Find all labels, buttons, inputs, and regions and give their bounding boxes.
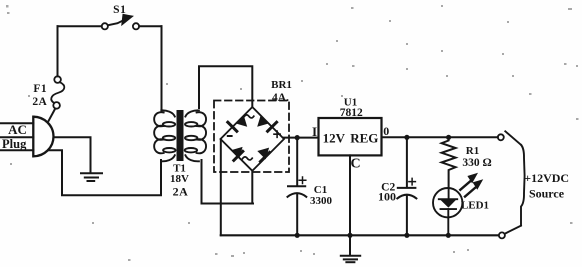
AC plug body <box>33 117 53 157</box>
symbol - left <box>227 135 233 137</box>
plug prong middle <box>0 136 33 138</box>
junction U1 ground rail <box>347 233 352 238</box>
wire top-left horizontal <box>58 25 102 27</box>
symbol ~ top <box>244 115 254 118</box>
svg-text:+12VDC: +12VDC <box>524 171 569 185</box>
diode D4 bottom-right <box>257 148 269 162</box>
junction C1 bottom <box>295 233 300 238</box>
svg-text:2A: 2A <box>32 96 47 108</box>
LED1 <box>433 188 462 235</box>
capacitor C2 <box>397 137 416 235</box>
wire U1 output rail <box>382 136 498 138</box>
switch S1 <box>102 14 139 29</box>
core <box>177 110 184 161</box>
bottom rail <box>221 234 498 236</box>
wire plug middle to ground <box>54 137 91 172</box>
svg-text:C: C <box>350 157 360 172</box>
svg-text:330 Ω: 330 Ω <box>462 157 491 169</box>
primary coil <box>161 110 175 116</box>
svg-text:I: I <box>312 124 317 139</box>
svg-text:S1: S1 <box>113 4 126 16</box>
wire U1 common down <box>349 155 351 255</box>
wire bridge plus to U1 input <box>284 137 319 139</box>
svg-text:Source: Source <box>529 186 565 200</box>
wire down to transformer primary <box>161 26 163 110</box>
diode D1 top-left <box>228 115 247 131</box>
wire fuse to plug <box>49 109 56 121</box>
terminal bottom <box>499 232 505 238</box>
terminal bottom lever <box>506 226 521 234</box>
symbol ~ bottom <box>242 157 252 160</box>
ground under U1 <box>341 256 360 262</box>
plug prong bottom <box>0 149 33 151</box>
wire bridge bottom vertex down <box>251 171 253 204</box>
bridge diamond <box>221 107 285 171</box>
junction R1 top <box>446 135 451 140</box>
terminal top lever <box>505 131 521 145</box>
junction LED bottom <box>446 233 451 238</box>
svg-text:100: 100 <box>378 189 396 203</box>
regulator U1 box <box>319 118 382 155</box>
LED1 arrow 2 <box>465 179 483 196</box>
symbol + right <box>274 131 280 137</box>
fuse F1 <box>51 76 64 108</box>
diode D2 top-right <box>257 115 276 131</box>
svg-text:0: 0 <box>383 124 389 138</box>
svg-text:12V REG: 12V REG <box>323 131 379 146</box>
wire bridge minus down to rail <box>220 140 222 236</box>
svg-text:2A: 2A <box>173 185 189 199</box>
transformer T1 <box>154 110 206 161</box>
bridge BR1 dashed box <box>214 101 289 173</box>
resistor R1 <box>442 137 456 188</box>
svg-text:18V: 18V <box>170 173 189 185</box>
svg-text:Plug: Plug <box>2 137 27 151</box>
capacitor C1 <box>288 138 307 236</box>
svg-text:R1: R1 <box>466 145 479 157</box>
svg-text:AC: AC <box>8 122 27 137</box>
wire secondary bottom to bridge bottom <box>202 160 254 204</box>
plug prong top <box>0 122 33 124</box>
wire secondary top to bridge <box>199 66 252 108</box>
wire plug bottom to transformer primary bottom <box>49 150 161 195</box>
ground near plug <box>81 173 102 181</box>
terminal top <box>498 134 504 140</box>
svg-text:F1: F1 <box>33 83 47 95</box>
wire top vertical above fuse <box>57 26 59 76</box>
LED1 arrow 1 <box>460 173 478 190</box>
junction C2 bottom <box>404 233 409 238</box>
svg-text:LED1: LED1 <box>461 200 489 212</box>
svg-text:7812: 7812 <box>340 107 363 119</box>
wire S1 to corner <box>139 25 161 27</box>
output bracket <box>521 145 525 226</box>
junction C1 top <box>295 135 300 140</box>
svg-text:3300: 3300 <box>310 195 333 207</box>
svg-text:BR1: BR1 <box>271 79 292 91</box>
diode D3 bottom-left <box>231 147 243 161</box>
junction C2 top <box>404 135 409 140</box>
secondary coil <box>185 110 199 116</box>
svg-text:4A.: 4A. <box>272 92 289 104</box>
